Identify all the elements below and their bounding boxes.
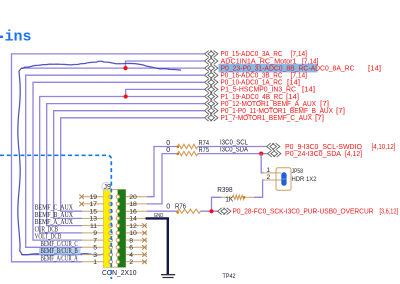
port P1_5-HSCMP0_IN3_RC — [205, 85, 316, 94]
pin 13 circle — [109, 217, 113, 221]
port P0_28-FC0_SCK-I3C0_PUR-USB0_OVERCUR — [218, 207, 399, 216]
pin 14 circle — [116, 217, 120, 221]
svg-text:1K: 1K — [225, 197, 233, 204]
no-connect X pin 12 — [142, 223, 147, 228]
wire R75 to port — [198, 153, 267, 155]
pin 9 circle — [109, 231, 113, 235]
svg-text:0: 0 — [166, 140, 170, 147]
resistor R76 — [166, 203, 200, 213]
pin 19 stub — [82, 196, 103, 198]
pin 13 stub — [82, 217, 103, 219]
pin 10 stub — [126, 232, 147, 234]
svg-text:4: 4 — [129, 252, 133, 259]
wire net8 loop: pin15 to port row — [61, 118, 204, 211]
pin 20 circle — [116, 195, 120, 199]
no-connect X pin 6 — [142, 245, 147, 250]
selection highlight on port P0_23 text — [219, 64, 318, 73]
wire net4 loop: pin7 to port row — [33, 82, 204, 240]
pin 4 circle — [116, 253, 120, 257]
svg-text:[14]: [14] — [302, 85, 315, 94]
svg-text:10: 10 — [129, 230, 137, 237]
faint cursor circle — [102, 182, 110, 190]
pin 12 stub — [126, 225, 147, 227]
blue dashed guide line — [0, 155, 111, 279]
svg-text:0: 0 — [166, 203, 170, 210]
ground symbol — [161, 275, 175, 278]
wire net2 loop: pin3 to port row — [21, 254, 82, 256]
wire R74 to port — [198, 146, 266, 148]
svg-text:CUR_DCB: CUR_DCB — [35, 226, 59, 233]
svg-text:6: 6 — [129, 245, 133, 252]
freehand annotation wavy line tracing selected net BEMF_B/CUR_B — [18, 61, 181, 255]
wire SDA junction to JP58 pin1 — [261, 154, 264, 173]
pin 6 stub — [126, 246, 147, 248]
svg-text:BEMF_C/CUR_C: BEMF_C/CUR_C — [41, 241, 79, 248]
svg-text:ins: ins — [5, 29, 32, 46]
pin 16 stub — [126, 210, 147, 212]
svg-text:17: 17 — [89, 201, 97, 208]
port P0_16-ADC0_3B_RC — [205, 71, 308, 80]
svg-text:14: 14 — [129, 216, 137, 223]
no-connect X pin 2 — [142, 260, 147, 265]
svg-text:BEMF_B_AUX: BEMF_B_AUX — [35, 212, 73, 219]
jumper JP58 body — [276, 168, 291, 191]
junction dot net5 — [124, 94, 128, 98]
svg-text:BEMF_C_AUX: BEMF_C_AUX — [35, 205, 73, 212]
svg-text:3: 3 — [93, 252, 97, 259]
pin 4 stub — [126, 254, 147, 256]
svg-text:1: 1 — [267, 167, 271, 174]
port ADC1IN1A_RC_Motor1 — [205, 56, 319, 65]
port P0_12-MOTOR1_BEMF_A_AUX — [205, 99, 330, 108]
wire R76 to junction — [201, 210, 218, 212]
wire net5 loop: pin9 to port row — [40, 97, 204, 233]
no-connect X pin 19 — [79, 194, 84, 199]
JP58 pin 1 — [264, 172, 282, 174]
pin 12 circle — [116, 224, 120, 228]
port P0_1-P0_11-MOTOR1_BEMF_B_AUX — [205, 106, 346, 115]
svg-text:BEMF_A/CUR_A: BEMF_A/CUR_A — [41, 255, 78, 262]
svg-text:P0_24-I3C0_SDA: P0_24-I3C0_SDA — [285, 149, 341, 158]
wire net6 loop: pin11 to port row — [47, 104, 204, 226]
svg-text:1: 1 — [93, 259, 97, 266]
pin 3 stub — [82, 254, 103, 256]
port P0_15-ADC0_3A_RC — [205, 49, 308, 58]
net label highlight BEMF_B/CUR_B — [39, 248, 81, 254]
connector J9 body outline — [104, 190, 126, 268]
wire JP58 pin2 to R398 — [254, 180, 264, 197]
junction dot net2 — [123, 66, 127, 70]
pin 1 stub — [82, 261, 103, 263]
wire step to port P1_5-HSCMP0_IN3_RC — [126, 89, 204, 96]
pin 17 circle — [109, 202, 113, 206]
svg-text:BEMF_A_AUX: BEMF_A_AUX — [35, 219, 73, 226]
pin 8 circle — [116, 238, 120, 242]
svg-text:BEMF_B/CUR_B: BEMF_B/CUR_B — [41, 248, 79, 255]
svg-text:J9: J9 — [104, 184, 112, 191]
svg-text:20: 20 — [129, 194, 137, 201]
JP58 pad oval — [281, 172, 286, 186]
pin 19 circle — [109, 195, 113, 199]
no-connect X pin 10 — [142, 231, 147, 236]
wire net7 loop: pin13 to port row — [54, 111, 204, 219]
svg-text:R398: R398 — [217, 187, 232, 194]
pin 5 circle — [109, 246, 113, 250]
svg-text:16: 16 — [129, 209, 137, 216]
svg-text:[3,6,12]: [3,6,12] — [380, 207, 399, 216]
connector J9 green column — [118, 190, 126, 268]
svg-text:0: 0 — [166, 147, 170, 154]
pin 11 circle — [109, 224, 113, 228]
connector J9 yellow column — [104, 190, 111, 268]
no-connect X pin 4 — [142, 252, 147, 257]
wire pin14 to ground (thick) — [146, 218, 168, 274]
sheet title text fragment "ins" — [0, 29, 32, 46]
svg-text:2: 2 — [267, 174, 271, 181]
pin 2 circle — [116, 260, 120, 264]
port P1_19-ADC0_4B_RC — [205, 92, 300, 101]
pin 11 stub — [82, 225, 103, 227]
svg-text:JP58: JP58 — [292, 168, 304, 175]
pin 15 stub — [82, 210, 103, 212]
svg-text:P0_28-FC0_SCK-I3C0_PUR-USB0_OV: P0_28-FC0_SCK-I3C0_PUR-USB0_OVERCUR — [233, 207, 374, 216]
svg-text:11: 11 — [90, 223, 97, 230]
svg-text:I3C0_SCL: I3C0_SCL — [220, 139, 248, 146]
wire R398 to junction — [212, 197, 222, 211]
pin 7 stub — [82, 239, 103, 241]
pin 3 circle — [109, 253, 113, 257]
wire pin20 to R74 — [147, 147, 178, 197]
pin 2 stub — [126, 261, 147, 263]
svg-text:[7]: [7] — [315, 113, 324, 122]
svg-text:13: 13 — [89, 216, 97, 223]
pin 18 stub — [126, 203, 147, 205]
pin 17 stub — [82, 203, 103, 205]
no-connect X pin 17 — [79, 202, 84, 207]
pin 14 stub — [126, 217, 147, 219]
svg-text:19: 19 — [89, 194, 97, 201]
wire net1 loop: pin1 to port row — [12, 54, 205, 262]
svg-text:TP42: TP42 — [223, 273, 236, 279]
pin 20 stub — [126, 196, 147, 198]
JP58 pin 2 — [264, 179, 282, 181]
pin 8 stub — [126, 239, 147, 241]
svg-text:2: 2 — [129, 259, 133, 266]
port P0_24-I3C0_SDA — [268, 149, 363, 158]
pin 5 stub — [82, 246, 103, 248]
svg-text:15: 15 — [89, 209, 97, 216]
junction dot P0_28 — [209, 209, 213, 213]
pin 1 circle — [109, 260, 113, 264]
svg-text:18: 18 — [129, 201, 137, 208]
svg-text:R76: R76 — [175, 203, 186, 210]
wire step to port ADC1IN1A_RC_Motor1 — [126, 61, 205, 68]
resistor R398 — [217, 187, 254, 204]
port P0_10-ADC0_1A_RC — [205, 78, 301, 87]
svg-text:12: 12 — [129, 223, 137, 230]
port P0_9-I3C0_SCL-SWDIO — [267, 142, 396, 151]
svg-text:CON_2X10: CON_2X10 — [102, 268, 137, 277]
svg-text:9: 9 — [93, 230, 97, 237]
resistor R74 — [166, 140, 209, 149]
junction dot SDA — [259, 152, 263, 156]
svg-text:R75: R75 — [199, 147, 210, 154]
pin 16 circle — [116, 209, 120, 213]
resistor R75 — [166, 147, 209, 156]
no-connect X pin 8 — [142, 238, 147, 243]
pin 7 circle — [109, 238, 113, 242]
pin 6 circle — [116, 246, 120, 250]
pin 15 circle — [109, 209, 113, 213]
wire pin18 to R75 — [147, 154, 178, 204]
svg-text:7: 7 — [93, 237, 97, 244]
svg-text:P1_7-MOTOR1_BEMF_C_AUX: P1_7-MOTOR1_BEMF_C_AUX — [221, 113, 313, 122]
pin 9 stub — [82, 232, 103, 234]
svg-text:I3C0_SDA: I3C0_SDA — [220, 146, 248, 153]
wire pin16 to R76 — [147, 210, 178, 212]
svg-text:8: 8 — [129, 237, 133, 244]
svg-text:[4,12]: [4,12] — [345, 149, 362, 158]
wire net3 loop: pin5 to port row — [26, 75, 204, 247]
svg-text:[14]: [14] — [368, 63, 381, 72]
port P0_23-P0_31-ADC0_8B_RC-ADC0_8A_RC — [205, 63, 382, 72]
svg-text:HDR 1X2: HDR 1X2 — [292, 176, 317, 183]
svg-text:VOLT_DCB: VOLT_DCB — [35, 234, 62, 241]
pin 18 circle — [116, 202, 120, 206]
svg-text:[4,10,12]: [4,10,12] — [372, 142, 396, 151]
svg-text:[7]: [7] — [336, 106, 345, 115]
pin 10 circle — [116, 231, 120, 235]
port P1_7-MOTOR1_BEMF_C_AUX — [205, 113, 325, 122]
svg-text:5: 5 — [93, 245, 97, 252]
svg-text:R74: R74 — [199, 140, 210, 147]
